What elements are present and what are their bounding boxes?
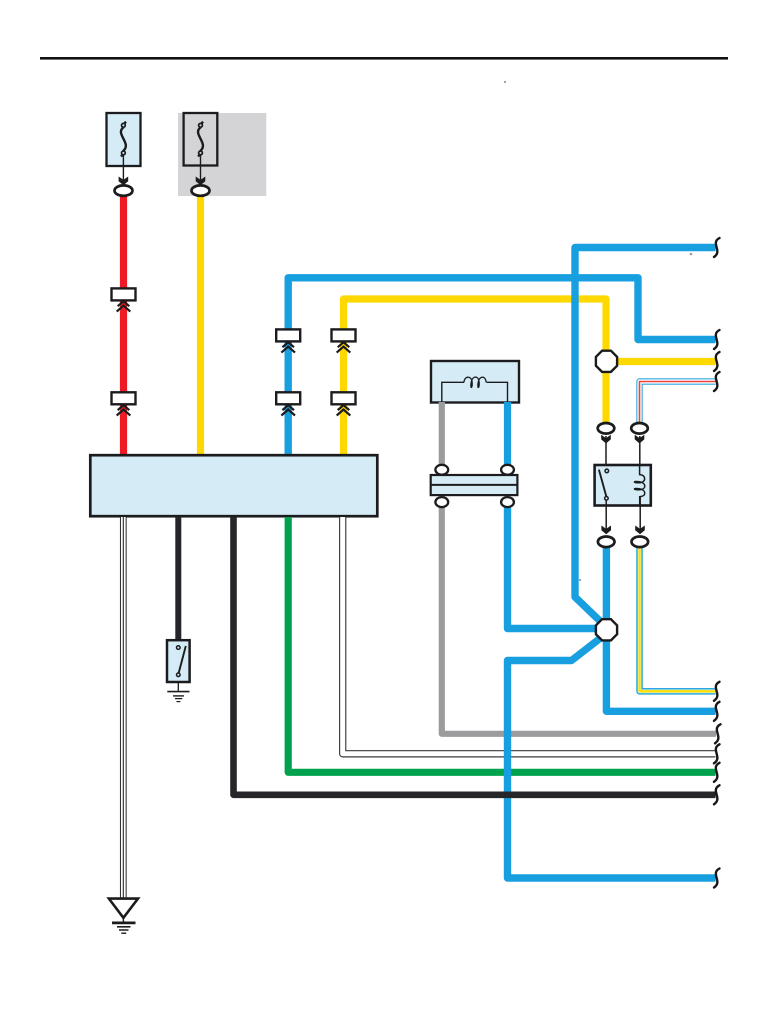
wire yellow (fuse 2 to ECU) — [197, 196, 204, 455]
relay pin ellipse bottom-right — [632, 537, 649, 548]
fuse F1 connector ellipse — [115, 185, 133, 195]
terminal circle bottom-right — [501, 497, 514, 507]
junction block mid line — [431, 484, 518, 486]
junction block bar — [431, 475, 518, 495]
wire white core — [343, 517, 716, 754]
wire yellow octagon down to relay pin — [602, 371, 609, 424]
thin wire blue/yellow relay pin to right edge (outer) — [640, 547, 716, 691]
break symbol blue mid — [714, 702, 720, 721]
thin wire blue/yellow core — [640, 547, 716, 691]
wire blue relay through octagon2 to right edge — [606, 547, 715, 711]
inline connector (yellow wire upper) — [332, 329, 356, 352]
relay switch top contact — [605, 469, 609, 473]
shielded wire center line — [122, 517, 124, 898]
fuse F1 pin lead — [122, 155, 124, 183]
break symbol white — [714, 744, 720, 763]
terminal circle bottom-left — [435, 497, 448, 507]
break symbol gray — [715, 724, 721, 743]
switch ground bar 2 — [173, 695, 184, 697]
switch ground bar 4 — [177, 701, 181, 703]
switch SW1 box — [167, 640, 190, 682]
wire red (fuse 1 to ECU) — [120, 196, 127, 455]
fuse F1 pin arrow — [119, 177, 129, 186]
break symbol yellow — [714, 352, 720, 371]
relay coil — [634, 466, 644, 505]
wire green ECU to right edge — [288, 517, 715, 772]
thin wire blue/red core — [640, 382, 716, 424]
header rule — [40, 57, 728, 60]
noise filter coil — [464, 377, 486, 387]
wire blue filter to octagon2 — [508, 507, 599, 629]
relay pin arrow top-left — [601, 435, 611, 444]
speck dot right — [690, 253, 693, 256]
thin wire blue/red relay pin to right edge (outer) — [640, 382, 716, 424]
fuse F2 box — [184, 113, 218, 166]
switch SW1 lever — [179, 646, 186, 673]
shielded wire ECU to ground (outer) — [120, 517, 127, 898]
switch ground bar 1 — [167, 691, 189, 693]
relay pin arrow top-right — [635, 435, 645, 444]
break symbol black — [714, 785, 720, 804]
ground G1 bar 4 — [121, 932, 126, 934]
wire blue filter lead — [504, 402, 511, 465]
fuse F2 pin lead — [200, 155, 202, 183]
shielded wire white core — [121, 517, 126, 898]
fuse F2 connector ellipse — [192, 185, 210, 195]
relay RL1 box — [595, 465, 651, 506]
ground G1 stem — [122, 918, 124, 922]
switch ground bar 3 — [175, 698, 182, 700]
relay pin lead bottom-right — [639, 496, 641, 532]
fuse F1 element — [121, 122, 126, 157]
break symbol blue top — [714, 238, 720, 257]
speck dot middle — [579, 579, 581, 581]
fuse F1 box — [107, 113, 141, 166]
octagon junction J1 — [596, 351, 617, 372]
inline connector (yellow wire lower) — [332, 392, 356, 415]
ground G1 bar 2 — [117, 926, 131, 928]
relay pin lead top-right — [639, 436, 641, 475]
inline connector (red wire upper) — [112, 288, 136, 311]
relay switch bottom contact — [605, 497, 609, 501]
inline connector (blue wire upper) — [276, 329, 300, 352]
fuse F2 element — [198, 122, 203, 157]
switch SW1 ground stem — [177, 682, 179, 692]
relay pin lead top-left — [605, 436, 607, 469]
wire yellow octagon to right edge — [617, 358, 716, 365]
relay pin lead bottom-left — [605, 500, 607, 532]
relay pin arrow bottom-left — [601, 526, 611, 535]
relay pin ellipse top-left — [598, 423, 615, 434]
switch SW1 bottom contact — [177, 673, 181, 677]
wire gray filter lead — [439, 402, 445, 465]
wire blue top-right run down to diagonal junction — [575, 248, 716, 622]
relay pin ellipse top-right — [631, 423, 648, 434]
fuse F2 pin arrow — [196, 177, 206, 186]
noise filter inner outline — [442, 382, 508, 402]
break symbol green — [714, 763, 720, 782]
relay switch lever — [599, 470, 607, 497]
switch SW1 top contact — [177, 646, 181, 650]
break symbol blue/yellow thin — [714, 682, 720, 701]
terminal circle top-right — [501, 465, 514, 475]
ECU block — [90, 455, 377, 516]
octagon junction J2 — [596, 619, 617, 640]
wire black ECU to right edge — [234, 517, 716, 795]
thin wire blue/red white gap — [640, 382, 716, 424]
speck dot top — [504, 81, 506, 83]
ground G1 bar 1 — [112, 922, 136, 925]
wire blue octagon2 down to right edge (long) — [508, 638, 716, 878]
ground G1 bar 3 — [119, 929, 129, 931]
noise filter box — [431, 361, 519, 403]
thin wire blue/yellow pale gap — [640, 547, 716, 691]
wire gray filter to right edge — [442, 507, 716, 734]
wire blue ECU to right edge (via top) — [288, 278, 715, 455]
break symbol blue bottom — [714, 869, 720, 888]
inline connector (red wire lower) — [112, 392, 136, 415]
relay pin ellipse bottom-left — [598, 537, 615, 548]
break symbol blue second — [714, 330, 720, 349]
wire yellow ECU to octagon junction — [344, 299, 607, 455]
break symbol blue/red thin — [714, 372, 720, 391]
inline connector (blue wire lower) — [276, 392, 300, 415]
relay pin arrow bottom-right — [635, 526, 645, 535]
ground G1 triangle — [109, 899, 138, 918]
terminal circle top-left — [435, 465, 448, 475]
wire black ECU to switch — [175, 517, 181, 641]
wire white ECU to right edge (outer) — [343, 517, 716, 754]
fuse F2 gray background block — [178, 113, 266, 196]
